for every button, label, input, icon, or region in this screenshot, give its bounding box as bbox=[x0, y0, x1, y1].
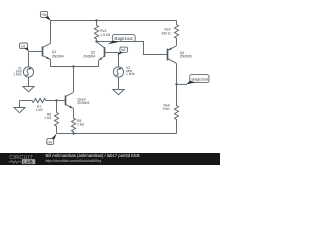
node dot emitter join bbox=[72, 65, 74, 67]
svg-text:9 kΩ: 9 kΩ bbox=[163, 107, 171, 111]
svg-text:+9v: +9v bbox=[41, 13, 47, 17]
svg-text:1 kHz: 1 kHz bbox=[13, 73, 22, 77]
ground (R7) bbox=[14, 108, 25, 113]
svg-text:2N3904: 2N3904 bbox=[52, 54, 64, 58]
node stage1out flag bbox=[107, 35, 135, 45]
wire stage1out net bbox=[97, 42, 168, 55]
svg-text:LAB: LAB bbox=[23, 159, 33, 164]
svg-text:stage2out: stage2out bbox=[191, 76, 209, 81]
node stage2out flag bbox=[177, 75, 210, 85]
node -9v flag bbox=[47, 134, 57, 145]
wire -9V bottom rail bbox=[57, 133, 177, 135]
svg-text:1 kΩ: 1 kΩ bbox=[44, 116, 52, 120]
resistor Rc2 1.5k vertical bbox=[94, 21, 110, 42]
node +9v flag bbox=[40, 11, 51, 20]
wire Q1 collector to rail bbox=[50, 21, 52, 44]
wire in1 to V1 bbox=[28, 52, 30, 67]
node dot R5 bottom bbox=[72, 132, 74, 134]
svg-text:1.5 kΩ: 1.5 kΩ bbox=[100, 33, 110, 37]
svg-text:1 kΩ: 1 kΩ bbox=[36, 108, 44, 112]
svg-text:stage1out: stage1out bbox=[114, 36, 133, 41]
transistor Q4 2N3906 (PNP mirrored) bbox=[168, 46, 192, 64]
source V2 sine bbox=[113, 66, 135, 77]
svg-text:2N3906: 2N3906 bbox=[180, 54, 192, 58]
wire emitters join bbox=[51, 60, 99, 67]
svg-text:-9v: -9v bbox=[47, 140, 52, 144]
wire Q4 collector down bbox=[176, 63, 178, 91]
node dot stage2out tap bbox=[175, 83, 177, 85]
wire tail node down bbox=[73, 67, 75, 93]
wire V2 to ground bbox=[118, 77, 120, 89]
wire V1 to ground bbox=[28, 77, 30, 86]
source V1 sine bbox=[13, 66, 33, 77]
node dot Rc2 top on rail bbox=[95, 19, 97, 21]
svg-text:1 kHz: 1 kHz bbox=[126, 72, 135, 76]
wire Q1 base lead bbox=[29, 51, 43, 53]
wire +9V top rail bbox=[51, 20, 177, 22]
svg-text:1 kΩ: 1 kΩ bbox=[77, 123, 85, 127]
node in2 flag bbox=[117, 47, 127, 55]
transistor Qee4 2N3904 (NPN current source) bbox=[66, 92, 90, 108]
svg-text:in1: in1 bbox=[21, 44, 25, 48]
svg-text:in2: in2 bbox=[121, 48, 125, 52]
transistor Q2 2N3904 (NPN mirrored) bbox=[83, 42, 104, 61]
wire R7 to ground bbox=[19, 101, 21, 108]
resistor R5 1k vertical bbox=[71, 109, 84, 134]
svg-text:http://circuitlab.com/c6rkuhkd: http://circuitlab.com/c6rkuhkd899rq bbox=[46, 159, 102, 163]
svg-text:2N3904: 2N3904 bbox=[83, 54, 95, 58]
svg-text:Bill Ashmanskas (ashmanskas) /: Bill Ashmanskas (ashmanskas) / lab17 par… bbox=[46, 153, 140, 158]
footer bar bbox=[0, 153, 220, 165]
ground (V2) bbox=[113, 90, 124, 95]
resistor Re4 9k vertical bbox=[163, 92, 179, 134]
node dot Q2 collector bbox=[95, 40, 97, 42]
svg-text:300 Ω: 300 Ω bbox=[161, 31, 171, 35]
wire Q2 base lead bbox=[105, 53, 119, 67]
resistor R7 1k horizontal bbox=[20, 98, 46, 112]
ground (V1) bbox=[23, 87, 34, 92]
wire Qee4 base lead bbox=[46, 100, 66, 102]
transistor Q1 2N3904 (NPN) bbox=[43, 43, 64, 59]
node in1 flag bbox=[20, 43, 29, 51]
svg-text:2N3904: 2N3904 bbox=[77, 101, 89, 105]
node dot R6 top bbox=[55, 99, 57, 101]
resistor R6 1k vertical bbox=[44, 101, 58, 134]
resistor Rc4 300 ohm vertical bbox=[161, 21, 178, 46]
